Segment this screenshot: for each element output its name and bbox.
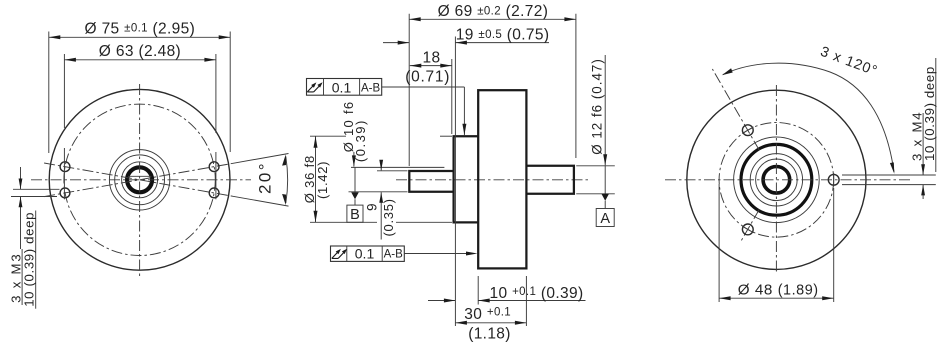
dimension 10 bottom [428, 276, 586, 305]
ring thin Ø36 [734, 137, 820, 223]
dimension 3xM4 [842, 58, 937, 199]
feature control frame top runout 0.1 A-B [307, 79, 467, 136]
svg-text:A: A [600, 211, 610, 227]
left shaft Ø10 with flat [409, 171, 453, 192]
svg-text:A-B: A-B [384, 249, 404, 261]
svg-text:A-B: A-B [361, 83, 381, 95]
dimension 30 bottom [455, 134, 526, 343]
right shaft top extension [576, 165, 615, 167]
svg-text:10 +0.1 (0.39): 10 +0.1 (0.39) [490, 285, 584, 302]
shaft Ø10 top extension [351, 166, 444, 168]
svg-text:(0.71): (0.71) [405, 68, 450, 85]
svg-text:0.1: 0.1 [355, 246, 375, 262]
inner circle 2 [115, 155, 165, 205]
radial line +10deg [44, 163, 233, 196]
dimension Ø48 [719, 184, 834, 302]
inner circle 1 [109, 150, 169, 210]
dimension 19 [383, 27, 549, 134]
ring thin small [756, 159, 798, 201]
svg-text:(0.35): (0.35) [381, 198, 396, 236]
flange Ø36 [454, 136, 479, 222]
radial 120 line [712, 69, 759, 150]
svg-text:10 (0.39) deep: 10 (0.39) deep [922, 66, 937, 161]
shaft bold ring [763, 167, 790, 194]
radial line -10deg [44, 163, 233, 196]
svg-text:(1.18): (1.18) [468, 326, 511, 342]
hole bottom-left [60, 188, 70, 198]
inner circle 3 [122, 162, 158, 198]
dimension Ø36 f8 [302, 136, 452, 222]
horizontal centerline [665, 179, 910, 181]
svg-text:B: B [350, 207, 360, 223]
dimension 18 [405, 49, 452, 134]
hole top-left [742, 125, 753, 136]
body [478, 90, 526, 268]
ring medium [750, 154, 802, 206]
dimension 3x120 [722, 44, 895, 174]
dimension Ø75 [49, 20, 230, 153]
shaft flat top extension [377, 170, 408, 172]
dimension 9 [364, 160, 396, 240]
vertical centerline [775, 85, 777, 274]
hole right [828, 174, 839, 185]
dimension 20deg [233, 154, 289, 207]
svg-text:(0.39): (0.39) [353, 119, 368, 162]
vertical centerline [139, 84, 141, 276]
centerline [396, 179, 589, 181]
svg-text:19 ±0.5 (0.75): 19 ±0.5 (0.75) [456, 27, 550, 44]
bold ring outer [741, 144, 812, 215]
svg-text:Ø 12 f6 (0.47): Ø 12 f6 (0.47) [590, 58, 605, 155]
hole top-right [209, 162, 219, 172]
dimension Ø69 [409, 3, 576, 166]
hole top-left [60, 162, 70, 172]
svg-text:Ø 48 (1.89): Ø 48 (1.89) [738, 282, 819, 299]
dimension Ø63 [64, 43, 216, 199]
svg-text:(1.42): (1.42) [315, 161, 330, 199]
datum B [347, 167, 363, 223]
outer circle Ø75 [49, 89, 230, 270]
right shaft bottom extension [576, 193, 615, 195]
shaft bottom extension [349, 191, 408, 193]
dimension Ø12 f6 and datum A [590, 55, 615, 227]
shaft flat chord [128, 175, 151, 177]
shaft bold ring [127, 167, 152, 192]
svg-text:20°: 20° [255, 161, 274, 194]
feature control frame bottom runout 0.1 A-B [331, 246, 478, 262]
svg-text:10 (0.39) deep: 10 (0.39) deep [22, 212, 37, 307]
bolt circle Ø63 dash-dot [64, 104, 215, 255]
horizontal centerline [31, 179, 251, 181]
bolt circle Ø48 dash-dot [719, 123, 834, 238]
svg-text:18: 18 [423, 49, 441, 66]
dimension 3xM3 [8, 167, 59, 309]
dimension Ø10 f6 [341, 101, 368, 167]
hole bottom-left [742, 224, 753, 235]
svg-text:0.1: 0.1 [332, 80, 352, 96]
hole bottom-right [209, 188, 219, 198]
svg-text:Ø 63 (2.48): Ø 63 (2.48) [99, 43, 181, 60]
svg-text:9: 9 [364, 203, 379, 211]
outer circle [687, 90, 866, 269]
radial 240 line [740, 209, 760, 243]
right shaft Ø12 [526, 166, 574, 194]
